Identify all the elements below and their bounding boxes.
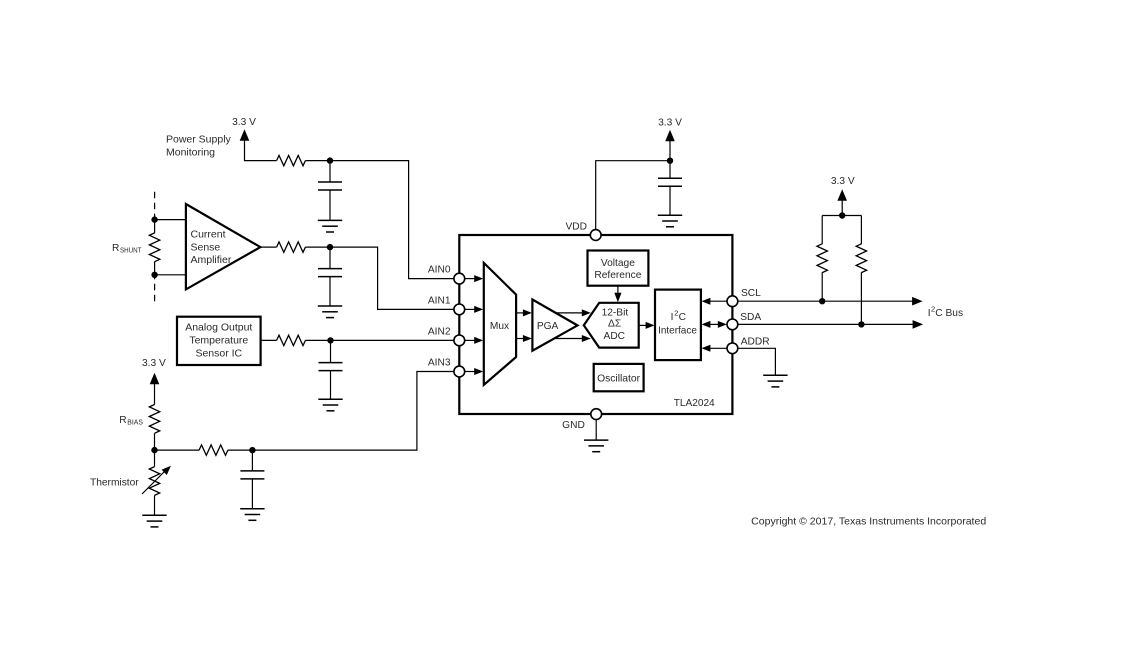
svg-text:Reference: Reference (594, 270, 641, 281)
wire AIN0 to mux (465, 275, 484, 282)
svg-text:Monitoring: Monitoring (166, 146, 215, 158)
wire mux to PGA (bottom) (516, 335, 532, 342)
resistor (thermistor series) (199, 445, 228, 455)
svg-text:GND: GND (562, 420, 585, 431)
wire ADC to I2C interface (639, 322, 655, 329)
resistor SCL pullup (817, 244, 827, 273)
node junction sensor output (327, 337, 333, 343)
thermistor RT (142, 466, 171, 496)
label R_SHUNT (112, 243, 142, 255)
ground (power monitor cap) (318, 220, 342, 232)
svg-text:Amplifier: Amplifier (191, 254, 232, 266)
node junction SDA pullup (858, 321, 864, 327)
node junction amp output (327, 244, 333, 250)
wire SCL bus (738, 297, 923, 306)
wire to AIN2 (305, 339, 454, 341)
wire mux to PGA (top) (516, 309, 532, 316)
node junction thermistor filter (249, 447, 255, 453)
IC TLA2024 outline (459, 235, 732, 414)
svg-text:AIN2: AIN2 (428, 327, 451, 338)
svg-text:Mux: Mux (490, 321, 509, 332)
capacitor (power monitor filter) (318, 161, 342, 221)
svg-text:C Bus: C Bus (935, 308, 963, 319)
label I2C Bus (928, 304, 963, 319)
wire left pullup leg (821, 216, 823, 245)
capacitor (amp output filter) (318, 247, 342, 306)
ground (GND pin) (584, 440, 608, 452)
pin GND (562, 409, 601, 431)
svg-text:Copyright © 2017, Texas Instru: Copyright © 2017, Texas Instruments Inco… (751, 516, 986, 528)
wire bias junction to series resistor (155, 449, 200, 451)
svg-text:AIN1: AIN1 (428, 296, 451, 307)
svg-text:Sense: Sense (191, 242, 221, 254)
block Voltage Reference (588, 251, 649, 286)
wire ADDR to ground (738, 348, 776, 375)
node junction shunt bottom (151, 272, 157, 278)
wire ADDR pin to I2C interface (701, 345, 727, 352)
svg-text:3.3 V: 3.3 V (831, 176, 855, 187)
svg-text:3.3 V: 3.3 V (232, 117, 256, 128)
ground (thermistor) (142, 515, 166, 527)
node R_SHUNT dashed bus (154, 192, 156, 302)
svg-text:Temperature: Temperature (189, 334, 248, 346)
resistor (sensor output series) (277, 335, 306, 345)
svg-text:AIN3: AIN3 (428, 358, 451, 369)
wire PGA to ADC (top) (556, 309, 591, 316)
svg-text:AIN0: AIN0 (428, 265, 451, 276)
svg-text:I: I (671, 312, 674, 323)
svg-text:Analog Output: Analog Output (185, 321, 252, 333)
svg-text:3.3 V: 3.3 V (658, 118, 682, 129)
wire vref to ADC (614, 286, 621, 303)
ground (amp cap) (318, 306, 342, 318)
ground (ADDR) (763, 375, 787, 387)
svg-text:TLA2024: TLA2024 (674, 398, 715, 409)
node junction bias (151, 447, 157, 453)
svg-text:Voltage: Voltage (601, 258, 635, 269)
svg-text:Interface: Interface (658, 326, 697, 337)
wire GND pin to ground (595, 420, 597, 441)
wire shunt bottom to amp (155, 274, 186, 276)
capacitor (thermistor filter) (240, 450, 264, 509)
wire SDA pullup to bus (860, 272, 862, 324)
node junction SCL pullup (819, 298, 825, 304)
wire SDA pin to I2C interface (bidirectional) (701, 321, 726, 328)
pin AIN0 (428, 265, 465, 284)
svg-text:ΔΣ: ΔΣ (608, 319, 621, 330)
node 3.3V (I2C pullups) (831, 176, 855, 201)
block Analog Output Temperature Sensor IC (177, 317, 261, 365)
svg-text:R: R (119, 415, 126, 426)
label R_BIAS (119, 415, 143, 427)
pin ADDR (727, 336, 770, 353)
node junction shunt top (151, 216, 157, 222)
wire pullup top bar (822, 200, 861, 215)
capacitor (VDD decoupling) (658, 161, 682, 216)
pin VDD (565, 221, 601, 240)
wire to AIN3 (228, 372, 454, 451)
svg-text:Sensor IC: Sensor IC (195, 347, 242, 359)
node junction VDD supply (667, 158, 673, 164)
svg-text:R: R (112, 243, 119, 254)
svg-text:VDD: VDD (565, 221, 587, 232)
wire SCL pin to I2C interface (701, 298, 727, 305)
svg-text:ADC: ADC (604, 331, 626, 342)
wire AIN3 to mux (465, 368, 484, 375)
resistor (power monitor series) (277, 155, 306, 165)
wire RBIAS to junction (154, 433, 156, 450)
ground (VDD cap) (658, 215, 682, 227)
svg-text:3.3 V: 3.3 V (142, 358, 166, 369)
ground (thermistor filter cap) (240, 509, 264, 521)
resistor (amp output series) (277, 242, 306, 252)
pin AIN2 (428, 327, 465, 346)
wire thermistor to ground (154, 495, 156, 515)
block Mux (484, 263, 516, 385)
resistor SDA pullup (856, 244, 866, 273)
pin SDA (727, 312, 761, 330)
wire shunt top to amp (155, 219, 186, 221)
svg-text:Oscillator: Oscillator (597, 374, 641, 385)
wire SDA bus (738, 320, 923, 329)
node junction pullup supply (839, 212, 845, 218)
resistor RBIAS (149, 405, 159, 434)
svg-text:C: C (679, 312, 686, 323)
svg-text:SDA: SDA (740, 312, 761, 323)
node 3.3V (power supply monitoring) (232, 117, 256, 141)
svg-text:Thermistor: Thermistor (90, 477, 139, 488)
pin SCL (727, 288, 761, 306)
svg-text:BIAS: BIAS (127, 418, 143, 427)
block 12-Bit Delta-Sigma ADC (584, 303, 639, 348)
wire AIN1 to mux (465, 306, 484, 313)
wire bias junction down (154, 450, 156, 467)
op-amp PGA (532, 300, 577, 351)
svg-text:SCL: SCL (741, 288, 761, 299)
wire 3.3V to RBIAS (154, 384, 156, 405)
resistor RSHUNT (149, 233, 159, 262)
wire 3.3V stem to corner (245, 140, 277, 161)
wire PGA to ADC (bottom) (554, 335, 591, 342)
label Power Supply Monitoring (166, 133, 232, 158)
op-amp Current Sense Amplifier (186, 204, 261, 289)
wire VDD supply (596, 141, 670, 230)
node junction power monitor (327, 157, 333, 163)
node 3.3V (bias) (142, 358, 166, 384)
wire AIN2 to mux (465, 337, 484, 344)
node 3.3V (VDD supply) (658, 118, 682, 142)
wire to AIN1 (305, 247, 454, 309)
wire SCL pullup to bus (821, 272, 823, 301)
pin AIN3 (428, 358, 465, 377)
wire resistor to AIN0 vertical (305, 161, 454, 279)
wire sensor output (261, 339, 277, 341)
block I2C Interface (655, 290, 701, 361)
svg-text:12-Bit: 12-Bit (602, 307, 629, 318)
pin AIN1 (428, 296, 465, 315)
ground (sensor cap) (318, 399, 342, 411)
svg-text:SHUNT: SHUNT (120, 246, 142, 255)
svg-text:Current: Current (191, 229, 226, 241)
block Oscillator (594, 364, 644, 391)
wire amp output (260, 246, 276, 248)
svg-text:PGA: PGA (537, 321, 559, 332)
svg-text:ADDR: ADDR (741, 336, 770, 347)
svg-text:Power Supply: Power Supply (166, 133, 232, 145)
wire right pullup leg (860, 216, 862, 245)
capacitor (sensor filter) (319, 340, 343, 399)
